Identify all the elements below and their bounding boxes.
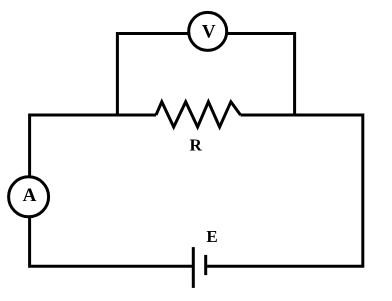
svg-text:R: R <box>190 136 203 155</box>
wire: left rail lower vertical from ammeter down and bottom rail left to battery <box>30 218 194 267</box>
label R (resistor value label) <box>190 136 203 155</box>
label V (voltmeter letter) <box>202 22 216 43</box>
wire: top rail left segment and left rail upper vertical to ammeter <box>30 115 156 177</box>
wire: voltmeter branch left (horizontal from circle to corner, then down to main rail) <box>117 34 188 117</box>
svg-text:V: V <box>202 22 216 43</box>
svg-text:E: E <box>206 227 217 246</box>
label A (ammeter letter) <box>23 185 37 206</box>
voltmeter V (circle) <box>189 12 227 50</box>
resistor R (zigzag) <box>156 102 241 127</box>
wire: voltmeter branch right (horizontal from circle to corner, then down to main rail) <box>228 34 295 117</box>
ammeter A (circle) <box>9 177 49 217</box>
battery E (tall plate) <box>192 247 195 288</box>
battery E (short plate) <box>204 255 207 275</box>
wire: top rail right segment, right rail vertical, bottom rail right to battery <box>206 115 363 266</box>
svg-text:A: A <box>23 185 37 206</box>
label E (battery label) <box>206 227 217 246</box>
